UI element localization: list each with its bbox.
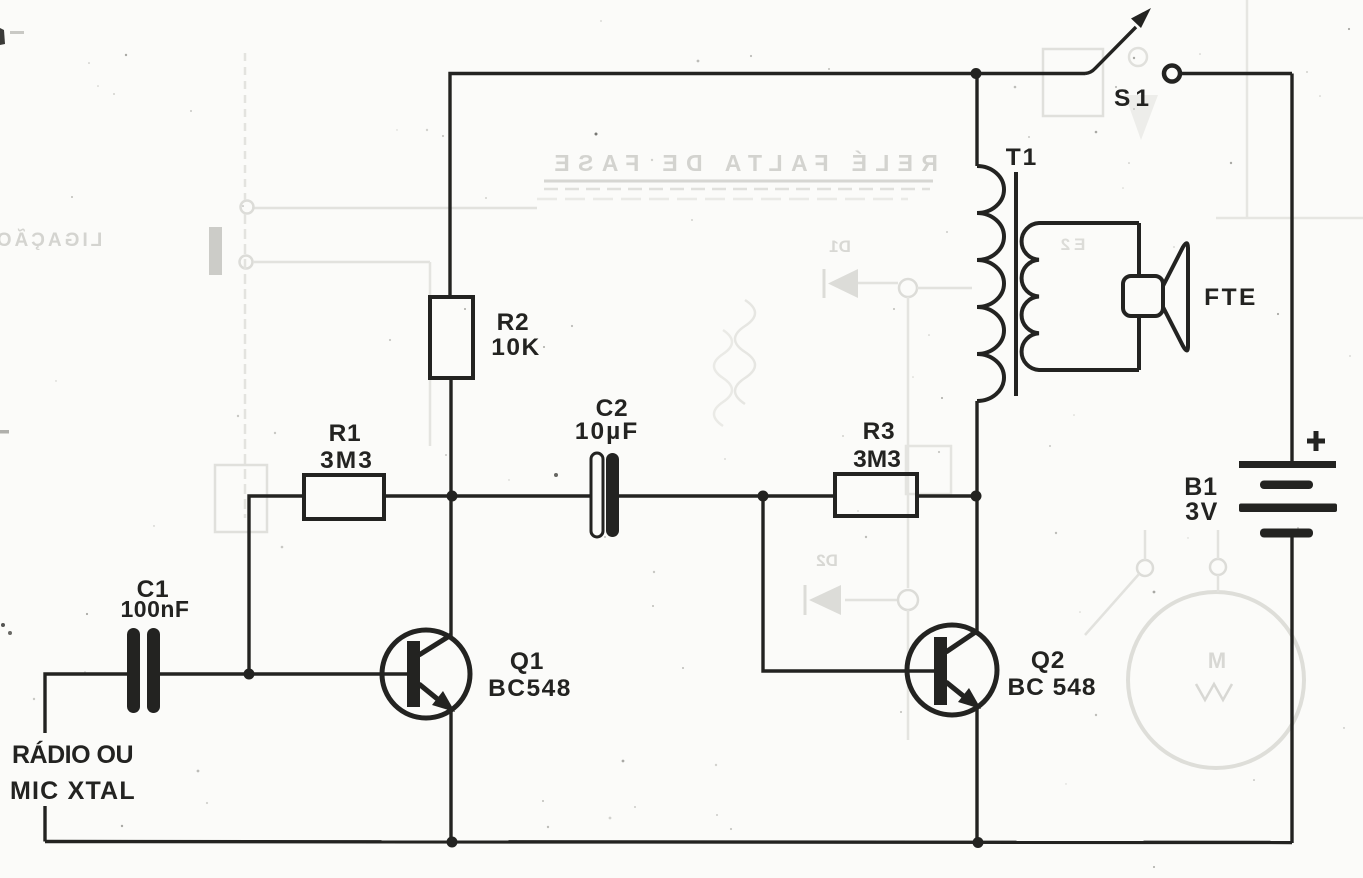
svg-text:10µF: 10µF [575,418,639,445]
svg-text:RELÉ FALTA DE FASE: RELÉ FALTA DE FASE [546,149,938,176]
svg-text:D2: D2 [816,551,838,570]
svg-text:3V: 3V [1185,498,1219,526]
svg-text:B1: B1 [1184,473,1217,501]
svg-text:Q1: Q1 [510,648,544,675]
svg-text:M: M [1208,648,1226,673]
svg-text:3M3: 3M3 [853,446,901,473]
svg-text:R1: R1 [329,420,362,447]
svg-text:S1: S1 [1114,85,1154,112]
svg-text:LIGAÇÃO: LIGAÇÃO [0,229,102,251]
svg-text:BC548: BC548 [488,675,572,702]
svg-text:Q2: Q2 [1031,647,1065,674]
svg-text:FTE: FTE [1204,284,1258,311]
svg-text:D1: D1 [829,237,851,256]
svg-text:10K: 10K [491,334,540,361]
svg-text:BC 548: BC 548 [1007,674,1096,701]
svg-text:100nF: 100nF [121,596,190,622]
svg-text:RÁDIO OU: RÁDIO OU [12,740,133,769]
svg-text:R3: R3 [863,418,896,445]
svg-text:MIC XTAL: MIC XTAL [10,777,136,805]
svg-text:R2: R2 [497,309,530,336]
svg-text:E2: E2 [1057,235,1086,254]
svg-text:T1: T1 [1006,144,1039,171]
svg-text:3M3: 3M3 [320,447,374,474]
